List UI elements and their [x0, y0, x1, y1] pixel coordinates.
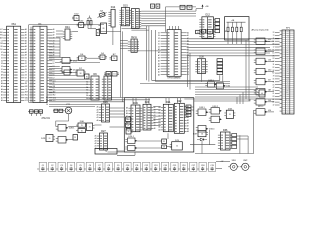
wire: [195, 110, 254, 154]
capacitor C24: [207, 29, 213, 33]
wire: [95, 124, 102, 126]
resistor R14: [240, 22, 242, 37]
wire: [49, 97, 124, 99]
IC D37: [193, 131, 208, 137]
diode VD1: [197, 138, 207, 141]
wire: [28, 25, 30, 103]
wire: [239, 95, 241, 105]
svg-text:71: 71: [273, 38, 275, 40]
gate D5.2: [60, 67, 78, 73]
IC D2.A: [128, 36, 139, 52]
pin label: [273, 90, 275, 92]
svg-text:83: 83: [273, 58, 275, 60]
svg-text:MRD: MRD: [286, 86, 289, 88]
wire: [122, 28, 147, 30]
wire: [49, 46, 60, 48]
svg-text:82: 82: [273, 67, 275, 69]
wire: [141, 15, 196, 17]
wire: [209, 130, 211, 145]
svg-text:16: 16: [81, 58, 83, 60]
svg-text:31: 31: [128, 131, 130, 133]
IC D18: [99, 23, 107, 34]
svg-text:D33.4: D33.4: [209, 129, 215, 131]
wire: [49, 73, 62, 75]
IC D12: [199, 14, 215, 39]
wire: [49, 86, 89, 88]
svg-text:T/C: T/C: [287, 95, 289, 97]
svg-text:D5: D5: [25, 72, 27, 74]
svg-text:CS: CS: [287, 71, 289, 73]
pin label: [273, 64, 275, 66]
power +5V: [196, 4, 209, 11]
wire: [49, 70, 62, 72]
wire: [56, 36, 63, 38]
wire: [153, 109, 161, 111]
svg-text:D4: D4: [158, 35, 160, 37]
pin label: [272, 50, 274, 52]
svg-text:KP1810BM86: KP1810BM86: [168, 78, 182, 80]
svg-text:D28.1: D28.1: [69, 128, 75, 130]
IC D36: [218, 129, 232, 150]
wire: [141, 17, 165, 19]
wire: [187, 44, 280, 46]
wire: [29, 102, 34, 104]
wire: [236, 97, 238, 104]
svg-text:D21: D21: [166, 101, 171, 104]
svg-text:85: 85: [163, 141, 165, 143]
wire: [129, 22, 131, 24]
wire: [275, 78, 280, 80]
wire: [190, 144, 215, 146]
wire: [112, 27, 114, 45]
wire: [275, 95, 280, 97]
svg-text:78: 78: [273, 76, 275, 78]
wire: [72, 60, 79, 62]
IC D34: [224, 108, 235, 118]
svg-text:42: 42: [273, 105, 275, 107]
wire: [195, 96, 258, 98]
wire: [108, 151, 125, 153]
buffer DD6: [254, 89, 267, 95]
svg-text:MWR: MWR: [286, 88, 289, 90]
svg-text:D1: D1: [158, 44, 160, 46]
wire: [72, 31, 78, 33]
IC D26: [97, 101, 110, 122]
buffer DD3: [254, 58, 267, 64]
svg-text:RD: RD: [287, 67, 289, 69]
wire: [110, 110, 125, 112]
resistor R13: [236, 22, 238, 37]
svg-text:WR: WR: [287, 69, 289, 71]
wire: [140, 82, 230, 84]
wire: [216, 168, 223, 170]
IC D8.3: [112, 72, 119, 77]
svg-text:05: 05: [273, 84, 275, 86]
wire: [275, 81, 280, 83]
IC D4.2: [110, 54, 118, 60]
svg-text:VCC: VCC: [286, 78, 289, 80]
svg-text:D3: D3: [25, 66, 27, 68]
svg-text:ZQ1: ZQ1: [100, 11, 104, 13]
svg-text:D1: D1: [25, 60, 27, 62]
capacitor C19: [206, 162, 215, 171]
wire: [189, 53, 191, 90]
wire: [275, 66, 280, 68]
wire: [275, 63, 280, 65]
wire: [275, 40, 280, 42]
pin label: [272, 73, 275, 75]
svg-text:29: 29: [74, 137, 76, 139]
svg-text:61: 61: [273, 93, 275, 95]
wire: [267, 91, 274, 93]
wire: [49, 37, 60, 39]
buffer DD5: [254, 78, 267, 84]
pin label: [273, 38, 275, 40]
svg-text:D1: D1: [272, 50, 274, 52]
wire: [247, 136, 249, 154]
pin label: [273, 58, 275, 60]
wire: [178, 26, 180, 30]
wire: [141, 10, 196, 12]
svg-text:28: 28: [273, 32, 275, 34]
IC D31: [87, 123, 95, 131]
svg-text:D0: D0: [158, 46, 160, 48]
wire: [187, 52, 270, 54]
svg-text:DRQ: DRQ: [286, 97, 289, 99]
wire: [49, 40, 60, 42]
pin label: [272, 41, 275, 43]
pin label: [273, 47, 275, 49]
label 2712 01: [42, 118, 51, 120]
svg-text:D6: D6: [1, 55, 3, 57]
IC D43.1: [126, 117, 133, 122]
wire: [267, 71, 274, 73]
svg-text:D6: D6: [25, 75, 27, 77]
svg-text:R6: R6: [90, 18, 92, 20]
wire: [49, 104, 102, 106]
wire: [167, 146, 172, 148]
svg-text:D5: D5: [158, 32, 160, 34]
buffer DD4: [254, 68, 267, 74]
wire: [129, 17, 131, 19]
svg-text:25: 25: [273, 55, 275, 57]
wire: [49, 59, 60, 61]
svg-text:D12: D12: [206, 14, 211, 17]
svg-text:D3: D3: [1, 63, 3, 65]
buffer DD8: [254, 109, 267, 115]
svg-text:98: 98: [80, 73, 82, 75]
wire: [110, 107, 125, 109]
svg-text:D10: D10: [106, 73, 111, 76]
svg-text:RST: RST: [286, 80, 289, 82]
svg-text:CLK: CLK: [0, 49, 3, 51]
svg-text:98: 98: [273, 70, 275, 72]
capacitor C5: [75, 162, 84, 171]
wire: [201, 74, 203, 82]
wire: [49, 43, 60, 45]
svg-text:D4: D4: [53, 69, 55, 71]
svg-text:CS: CS: [25, 89, 27, 91]
wire: [141, 25, 165, 27]
pin label: [273, 55, 275, 57]
IC D10: [102, 73, 112, 100]
wire: [137, 50, 167, 52]
wire: [187, 56, 189, 87]
label DD2: [268, 49, 271, 51]
wire: [56, 30, 63, 32]
wire: [267, 40, 274, 42]
buffer DD7: [254, 99, 267, 105]
pin label: [273, 32, 275, 34]
IC D9: [86, 73, 99, 100]
svg-text:D36: D36: [223, 129, 228, 132]
wire: [49, 57, 62, 59]
buffer D23: [186, 105, 191, 117]
label RP2: [258, 106, 263, 108]
wire: [148, 98, 150, 105]
wire: [184, 98, 282, 100]
svg-text:D38: D38: [199, 56, 204, 59]
svg-text:48: 48: [163, 147, 165, 149]
module border: [124, 98, 194, 152]
svg-text:D4: D4: [46, 104, 48, 106]
wire: [275, 92, 280, 94]
wire: [89, 16, 91, 19]
wire: [275, 43, 280, 45]
wire: [49, 68, 60, 70]
buffer D36.2: [232, 134, 237, 149]
wire: [236, 38, 238, 45]
capacitor C12: [141, 162, 150, 171]
capacitor C28: [180, 5, 185, 9]
resistor R6: [90, 18, 92, 26]
IC D4: [98, 53, 107, 59]
wire: [132, 98, 134, 105]
wire: [55, 62, 100, 64]
svg-text:21: 21: [182, 7, 184, 9]
pin label: [273, 81, 275, 83]
wire: [201, 141, 203, 154]
wire: [187, 41, 270, 43]
gate D33.2: [209, 106, 222, 114]
IC D15: [120, 4, 130, 26]
svg-text:73: 73: [273, 35, 275, 37]
IC D22: [174, 100, 189, 133]
wire: [231, 38, 233, 45]
pin label: [272, 52, 274, 54]
wire: [191, 106, 194, 108]
connector XP1: [280, 28, 294, 115]
svg-text:96: 96: [86, 76, 88, 78]
pin label: [273, 96, 275, 98]
capacitor C6: [84, 162, 93, 171]
wire: [88, 17, 91, 19]
wire: [275, 34, 280, 36]
wire: [275, 87, 280, 89]
IC D38: [195, 56, 207, 74]
gate D33.1: [196, 107, 208, 115]
svg-text:D5: D5: [1, 57, 3, 59]
svg-text:D41: D41: [65, 26, 70, 29]
wire: [187, 38, 280, 40]
svg-text:XW1: XW1: [232, 160, 236, 162]
svg-text:D0: D0: [1, 72, 3, 74]
IC D16: [131, 9, 141, 29]
pin label: [273, 76, 275, 78]
wire: [49, 75, 77, 77]
svg-text:GND: GND: [286, 76, 289, 78]
wire: [110, 126, 125, 128]
capacitor C7: [94, 162, 103, 171]
svg-text:19: 19: [81, 125, 83, 127]
capacitor C4: [65, 162, 74, 171]
svg-text:IRQ: IRQ: [286, 74, 288, 76]
IC D30.2: [76, 129, 86, 133]
wire: [155, 30, 157, 82]
svg-text:79: 79: [127, 125, 129, 127]
wire: [275, 101, 280, 103]
pin label: [46, 104, 48, 106]
svg-text:D4: D4: [1, 60, 3, 62]
wire: [194, 99, 250, 101]
wire: [49, 52, 60, 54]
wire: [165, 7, 167, 32]
wire: [168, 98, 170, 104]
connector XW2: [240, 160, 251, 170]
wire: [121, 31, 123, 101]
capacitor C25: [162, 139, 167, 144]
wire: [153, 115, 161, 117]
wire: [120, 48, 128, 50]
wire: [49, 101, 124, 103]
capacitor C2: [47, 162, 56, 171]
svg-text:06: 06: [273, 79, 275, 81]
wire: [177, 98, 179, 104]
wire: [152, 79, 220, 81]
wire: [275, 75, 280, 77]
svg-text:D33.2: D33.2: [213, 106, 219, 108]
gate D5.3: [62, 70, 72, 75]
svg-text:61: 61: [80, 25, 82, 27]
svg-text:20: 20: [49, 138, 51, 140]
wire: [49, 106, 95, 108]
capacitor C14: [159, 162, 168, 171]
wire: [49, 55, 60, 57]
capacitor C15: [169, 162, 178, 171]
wire: [195, 86, 258, 88]
svg-text:D7: D7: [25, 77, 27, 79]
wire: [117, 150, 124, 152]
wire: [275, 58, 280, 60]
capacitor C11: [131, 162, 140, 171]
cells D35: [257, 90, 265, 97]
wire: [275, 32, 280, 34]
capacitor C13: [150, 162, 159, 171]
resistor R12: [231, 22, 233, 37]
svg-text:D1: D1: [113, 74, 115, 76]
gate D5.1: [60, 58, 78, 64]
label AT bus: [252, 29, 270, 32]
wire: [187, 49, 280, 51]
wire: [153, 118, 161, 120]
wire: [275, 46, 280, 48]
svg-text:D1: D1: [1, 69, 3, 71]
wire: [191, 109, 194, 111]
svg-text:D2: D2: [158, 41, 160, 43]
wire: [68, 126, 78, 128]
buffer D39: [217, 59, 223, 82]
label DD8: [268, 110, 271, 112]
pin label: [272, 43, 274, 46]
IC D8.2: [104, 72, 111, 77]
wire: [148, 26, 150, 82]
svg-text:83: 83: [273, 96, 275, 98]
wire: [59, 38, 61, 58]
svg-text:094: 094: [268, 39, 271, 41]
CPU left pin labels: [158, 32, 160, 76]
pin label: [273, 70, 275, 72]
wire: [240, 38, 242, 45]
capacitor C3: [56, 162, 65, 171]
capacitor C8: [103, 162, 112, 171]
gate D33.3: [209, 116, 222, 122]
svg-text:D2: D2: [25, 63, 27, 65]
resistor R3 R4: [53, 109, 65, 112]
svg-text:AT pna chipna linb: AT pna chipna linb: [252, 29, 270, 32]
wire: [141, 20, 165, 22]
svg-text:CLK: CLK: [25, 80, 28, 82]
wire: [49, 78, 89, 80]
wire: [120, 45, 128, 47]
svg-text:D1: D1: [127, 119, 129, 121]
wire: [120, 42, 128, 44]
wire: [275, 55, 280, 57]
gate D24.2: [125, 146, 137, 151]
IC D43.2: [126, 123, 133, 128]
svg-text:D33.1: D33.1: [199, 107, 205, 109]
wire: [49, 89, 89, 91]
IC D41: [63, 26, 72, 40]
wire: [56, 118, 69, 127]
wire: [267, 60, 274, 62]
wire: [267, 101, 274, 103]
capacitor C1: [37, 162, 46, 171]
svg-text:89: 89: [103, 28, 105, 30]
svg-text:D4: D4: [25, 69, 27, 71]
wire: [187, 55, 280, 57]
svg-text:D27: D27: [101, 130, 106, 133]
wire: [151, 30, 153, 80]
resistor R5: [87, 18, 89, 26]
label DD6: [268, 89, 271, 92]
wire: [195, 91, 258, 93]
wire: [134, 152, 136, 155]
svg-text:66: 66: [81, 130, 83, 132]
wire: [153, 125, 161, 127]
wire: [275, 37, 280, 39]
svg-text:RDY: RDY: [286, 92, 289, 94]
svg-text:4D6: 4D6: [268, 110, 271, 112]
wire: [237, 135, 249, 137]
wire: [275, 98, 280, 100]
CPU D11 KP1810BM86: [161, 30, 190, 80]
svg-text:D7: D7: [1, 52, 3, 54]
pin label: [273, 61, 275, 63]
svg-text:10: 10: [189, 7, 191, 9]
wire: [49, 99, 150, 101]
wire: [129, 20, 131, 22]
wire: [275, 61, 280, 63]
